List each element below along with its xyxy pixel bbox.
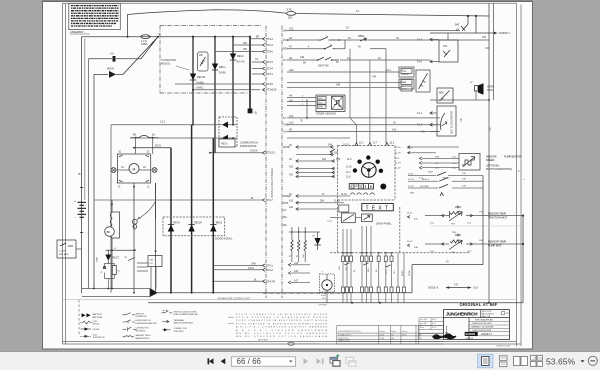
svg-text:583/636: 583/636	[466, 338, 474, 340]
svg-text:11-30: 11-30	[408, 186, 414, 188]
svg-text:ST3-2/1: ST3-2/1	[266, 152, 276, 155]
thyristor module boundary	[160, 26, 262, 93]
wire BL row to ST4-7	[94, 198, 273, 202]
svg-text:15A: 15A	[288, 16, 293, 20]
svg-text:DIODE: DIODE	[93, 329, 100, 331]
svg-text:gepr. EM: gepr. EM	[420, 323, 427, 325]
connector arrows ST column	[175, 36, 277, 92]
svg-text:11-15: 11-15	[334, 201, 340, 203]
wire MDIN column	[93, 74, 95, 288]
commutation diode module	[111, 117, 276, 155]
DIODE-B free row	[428, 285, 478, 290]
capacitor C3	[89, 52, 142, 62]
svg-text:MDIN: MDIN	[107, 66, 114, 70]
svg-text:KURZHUBSCHALTER: KURZHUBSCHALTER	[136, 322, 157, 325]
svg-text:SY: SY	[283, 117, 287, 120]
svg-text:RECT: RECT	[113, 257, 120, 260]
svg-text:ST4-7: ST4-7	[266, 199, 273, 202]
temp sensor traction row	[407, 206, 524, 226]
legend text block right	[228, 314, 328, 342]
svg-text:MELD. NR: MELD. NR	[482, 316, 491, 318]
sheet border frame	[63, 3, 522, 346]
signature scribble	[433, 334, 456, 338]
bottom-left oval	[288, 342, 320, 345]
svg-text:RD/BK: RD/BK	[409, 269, 411, 276]
svg-text:22-5: 22-5	[386, 270, 388, 274]
svg-text:A20: A20	[289, 69, 294, 72]
svg-text:REC8: REC8	[221, 143, 228, 146]
icon window disabled	[346, 357, 356, 366]
svg-text:3 FU: 3 FU	[287, 7, 293, 11]
svg-text:F1-2: F1-2	[417, 124, 423, 127]
svg-text:OR: OR	[243, 48, 247, 51]
svg-text:ST4-3: ST4-3	[266, 38, 273, 41]
toolbar	[0, 351, 600, 370]
diode REC4	[168, 222, 181, 232]
svg-text:14-2: 14-2	[467, 251, 472, 253]
wire row 138	[287, 137, 350, 139]
svg-text:05.93: 05.93	[402, 334, 407, 336]
wire gate row ON/BL	[192, 87, 260, 91]
wire return L	[412, 262, 483, 293]
wire row A8 seat switch	[287, 56, 430, 68]
svg-text:29A: 29A	[320, 200, 325, 203]
control unit mid rows	[283, 144, 352, 227]
svg-text:471: 471	[506, 313, 509, 315]
svg-text:DIODE -B: DIODE -B	[428, 288, 439, 290]
wire SCR branch 3	[232, 36, 234, 125]
diode module dashed box	[163, 217, 233, 241]
svg-text:11-18: 11-18	[395, 153, 401, 155]
aux contactor box	[57, 240, 82, 258]
svg-text:A,B,C,F,S,L CONNECTOR CONTRO: A,B,C,F,S,L CONNECTOR CONTROL HARNESS	[236, 326, 328, 329]
svg-text:462: 462	[443, 45, 448, 48]
svg-text:53.65%: 53.65%	[546, 356, 576, 366]
svg-text:A20: A20	[289, 206, 294, 209]
svg-text:BATTERIE: BATTERIE	[93, 316, 104, 319]
svg-text:ST3-6: ST3-6	[266, 51, 273, 54]
rows A19 A16 A17	[288, 262, 310, 284]
svg-text:BT: BT	[256, 36, 260, 39]
svg-text:OV: OV	[283, 210, 287, 212]
svg-text:05.93: 05.93	[380, 338, 385, 340]
pcb boundary dash-dot column 1	[265, 26, 267, 298]
diode MDIN	[94, 66, 123, 78]
svg-text:STEER-SENSOR: STEER-SENSOR	[316, 113, 336, 116]
black code cell	[465, 332, 478, 336]
svg-text:SCHUETZ: SCHUETZ	[136, 330, 147, 332]
temp sensor pump row	[407, 232, 524, 254]
legend connector symbol	[162, 328, 187, 333]
bus negative return	[82, 282, 412, 297]
svg-text:ASSEMBLY...: ASSEMBLY...	[70, 30, 86, 34]
svg-text:Norm: Norm	[420, 327, 425, 329]
wire motor down risers	[133, 183, 155, 293]
motor M traction	[111, 152, 157, 189]
connector boxes F2	[287, 69, 412, 92]
RFI filter box R6	[198, 52, 209, 71]
svg-text:STROM.AUFPLAN: STROM.AUFPLAN	[475, 319, 493, 322]
svg-text:POWER FOR CONTROL UNIT: POWER FOR CONTROL UNIT	[218, 298, 251, 300]
svg-text:BAT: BAT	[455, 24, 460, 27]
TEXT display box	[362, 204, 394, 212]
accelerator unit	[417, 106, 463, 136]
svg-text:A16: A16	[294, 270, 299, 273]
svg-text:Datum: Datum	[380, 330, 386, 333]
svg-text:TMO: TMO	[283, 124, 289, 127]
svg-text:14-8: 14-8	[394, 270, 396, 274]
svg-text:A21: A21	[289, 100, 294, 103]
svg-text:Bl 1/1: Bl 1/1	[432, 319, 436, 321]
svg-text:ST3-3: ST3-3	[266, 44, 273, 47]
svg-text:OV: OV	[283, 131, 287, 134]
svg-text:MB,ML COLLECTOR OPTION-HARNE: MB,ML COLLECTOR OPTION-HARNESS	[236, 332, 328, 335]
wire row A5	[287, 129, 440, 132]
svg-text:ST4-7/8: ST4-7/8	[266, 280, 276, 283]
wire row A7 REV with switch	[287, 40, 386, 143]
svg-text:MB,ML STECKER OPTION-KABELBA: MB,ML STECKER OPTION-KABELBAUM	[236, 335, 327, 338]
svg-text:THYRISTOR: THYRISTOR	[93, 337, 105, 339]
svg-text:4852: 4852	[428, 172, 434, 174]
svg-text:11-16: 11-16	[395, 147, 401, 149]
option boundary left dashes	[78, 300, 80, 336]
svg-text:MODUL: MODUL	[161, 61, 171, 65]
svg-text:UNIT ACCELERATOR: UNIT ACCELERATOR	[451, 111, 454, 134]
left small cells	[419, 310, 444, 340]
svg-text:Name: Name	[391, 331, 396, 333]
svg-text:11-19: 11-19	[395, 163, 401, 165]
wire right riser	[488, 3, 490, 303]
bus bottom long	[63, 299, 524, 304]
control unit left labels	[283, 28, 294, 134]
svg-text:GM3036-1: GM3036-1	[499, 32, 511, 35]
horn circuit boxes	[399, 67, 430, 92]
svg-text:F1-1: F1-1	[417, 112, 423, 115]
svg-text:F1/F2 STECKER IN ELEKTRONIK: F1/F2 STECKER IN ELEKTRONIK-EINHEIT BOSC…	[236, 323, 327, 325]
svg-text:11-22: 11-22	[341, 194, 347, 196]
svg-text:4V: 4V	[441, 98, 444, 100]
svg-text:PUMP MOT.: PUMP MOT.	[488, 244, 502, 247]
svg-text:DIODE MODUL: DIODE MODUL	[240, 145, 258, 148]
svg-text:43E: 43E	[414, 247, 418, 249]
svg-text:A12: A12	[289, 28, 294, 31]
wire main positive bus	[82, 36, 251, 38]
svg-text:TRACTION MOT.: TRACTION MOT.	[488, 216, 508, 219]
svg-text:11-3: 11-3	[346, 172, 351, 174]
svg-text:11-7: 11-7	[373, 143, 378, 145]
svg-text:SCHALTER: SCHALTER	[136, 315, 147, 318]
svg-text:43C: 43C	[414, 219, 418, 221]
svg-text:HRT AUX: HRT AUX	[59, 253, 69, 256]
svg-text:SENSOR TEMP.: SENSOR TEMP.	[488, 241, 507, 244]
svg-text:COIL: COIL	[93, 321, 99, 323]
svg-text:TEXT: TEXT	[366, 206, 392, 212]
svg-text:ANSCHLUSSPUNKT: ANSCHLUSSPUNKT	[174, 322, 194, 325]
svg-text:13-2: 13-2	[390, 143, 395, 145]
revision pointer	[445, 326, 447, 334]
svg-text:MODE: MODE	[283, 147, 290, 149]
legend liquid switch symbol	[162, 310, 199, 316]
svg-text:OR8: OR8	[251, 263, 256, 265]
small box left of panel	[327, 205, 349, 223]
svg-text:55/21: 55/21	[155, 145, 162, 148]
svg-text:MAGNET FIELD: MAGNET FIELD	[136, 334, 152, 337]
svg-text:FU: FU	[150, 263, 153, 265]
wire row A13	[287, 122, 440, 125]
svg-text:4 MODIFICATION KD 10.94: 4 MODIFICATION KD 10.94	[338, 330, 360, 333]
svg-text:3B+: 3B+	[283, 225, 288, 227]
TB switch cluster	[124, 256, 162, 289]
svg-text:108: 108	[482, 36, 487, 39]
svg-text:KS: KS	[456, 28, 460, 31]
svg-text:42BR: 42BR	[97, 256, 99, 262]
battery GB1	[74, 172, 86, 233]
svg-text:REC5P: REC5P	[194, 222, 202, 225]
svg-text:PRINTED CIRCUIT BOARD: PRINTED CIRCUIT BOARD	[271, 168, 274, 198]
svg-text:F1-6: F1-6	[417, 61, 423, 64]
svg-text:MAGNETFELD: MAGNETFELD	[136, 337, 151, 340]
wire row A11	[287, 99, 440, 123]
diode REC2	[230, 54, 245, 64]
zoom out button	[588, 356, 597, 365]
svg-text:ORANGE: ORANGE	[401, 73, 410, 76]
svg-text:RFI: RFI	[199, 54, 203, 57]
hour meter box	[330, 213, 355, 223]
svg-text:43A: 43A	[322, 158, 327, 161]
svg-text:CGM1/91 06.94: CGM1/91 06.94	[496, 346, 511, 348]
svg-text:ST3-1: ST3-1	[266, 73, 273, 76]
icon two page scroll	[531, 355, 544, 366]
svg-text:11-21: 11-21	[407, 213, 413, 215]
svg-text:BK/4: BK/4	[319, 98, 323, 100]
bottom connector columns	[339, 226, 411, 303]
svg-text:ON/GN: ON/GN	[250, 151, 258, 153]
svg-text:MB01: MB01	[358, 35, 365, 38]
svg-text:CARRELLI 20-25/20RM: CARRELLI 20-25/20RM	[471, 325, 493, 328]
svg-text:11-20: 11-20	[407, 148, 413, 150]
svg-text:SPULE: SPULE	[93, 324, 100, 326]
key switch KS	[455, 15, 477, 33]
steering wheel indicator cluster	[353, 155, 383, 177]
svg-text:1 AEND. 02.92: 1 AEND. 02.92	[338, 339, 350, 342]
svg-text:14-1: 14-1	[430, 251, 435, 253]
svg-text:A15: A15	[289, 200, 294, 203]
wire row A6 FWD with switch	[287, 35, 489, 41]
horn speaker HN01	[430, 82, 494, 101]
svg-text:3 STAND 05.93: 3 STAND 05.93	[338, 333, 350, 336]
svg-text:A19: A19	[294, 262, 299, 265]
horn option circle	[319, 272, 335, 307]
legend coil symbol	[81, 321, 100, 326]
legend horn switch symbol	[123, 320, 157, 325]
icon prev page	[221, 358, 226, 364]
svg-text:GY: GY	[283, 59, 287, 62]
svg-text:ST3/4 STECKER IN ELEKTRONIK: ST3/4 STECKER IN ELEKTRONIK BOSCH	[236, 317, 327, 319]
svg-text:BL: BL	[354, 270, 356, 272]
connector pins on dash top	[350, 49, 395, 146]
svg-text:TERMINAL: TERMINAL	[174, 319, 185, 322]
svg-text:A23/49-T1: A23/49-T1	[481, 333, 492, 336]
svg-text:ST3-5: ST3-5	[266, 83, 273, 86]
svg-text:DASH PANEL: DASH PANEL	[376, 223, 392, 226]
fuse 3FU	[286, 7, 359, 19]
svg-text:REC3P: REC3P	[197, 76, 206, 79]
diode REC1	[212, 64, 227, 75]
svg-text:STECKER: STECKER	[174, 331, 184, 333]
svg-text:HORN SWITCH: HORN SWITCH	[136, 320, 151, 322]
svg-text:TM: TM	[150, 260, 153, 262]
svg-text:M: M	[370, 185, 373, 189]
option dashdot boundary	[263, 292, 345, 294]
wire SCR branch 1	[192, 36, 194, 126]
connector stub rows right of panel	[408, 127, 526, 226]
svg-text:EUR0PE: EUR0PE	[466, 333, 476, 336]
svg-text:SCR: SCR	[93, 334, 98, 336]
steer sensor unit	[287, 95, 345, 116]
svg-text:REC2: REC2	[237, 55, 244, 58]
brake unit box	[437, 88, 453, 103]
svg-text:PUMP/MOTOR-: PUMP/MOTOR-	[504, 156, 522, 159]
svg-text:43GN: 43GN	[248, 268, 254, 270]
svg-text:CGM 20-20 /20-7025: CGM 20-20 /20-7025	[472, 323, 492, 325]
svg-text:11-20: 11-20	[343, 145, 349, 147]
svg-text:P38: P38	[336, 159, 341, 161]
switch rows right	[408, 172, 483, 265]
wire branch 4 to X1	[248, 36, 259, 115]
svg-text:F1/F2 CONNECTOR IN ELECTRON: F1/F2 CONNECTOR IN ELECTRONIC UNIT BOSCH	[236, 320, 327, 322]
icon new window	[330, 354, 340, 366]
svg-text:11-6: 11-6	[347, 159, 352, 161]
svg-text:SENSOR TEMP.: SENSOR TEMP.	[488, 213, 507, 216]
wire row A20	[287, 69, 400, 87]
svg-text:66 / 66: 66 / 66	[237, 357, 262, 366]
speed sensor box	[459, 154, 522, 172]
icon first page	[208, 358, 214, 364]
svg-text:BK/BU: BK/BU	[402, 270, 404, 276]
diode REC3	[190, 74, 206, 85]
pump contact and cable	[132, 183, 156, 293]
svg-text:Ers. d.: Ers. d.	[432, 327, 437, 329]
diode REC6	[210, 222, 223, 232]
label C1 rows	[133, 121, 166, 137]
relay box contact	[417, 33, 458, 64]
diode RECT bottom left	[97, 250, 120, 263]
svg-text:HN01: HN01	[487, 89, 494, 92]
svg-text:GN8: GN8	[339, 266, 341, 270]
svg-text:12V: 12V	[322, 298, 326, 300]
svg-text:DIODE MODUL: DIODE MODUL	[215, 238, 233, 241]
thick verticals to diode module	[134, 125, 213, 293]
wire SCR branch 2	[214, 36, 216, 153]
diode REC5P	[188, 222, 202, 232]
wire top bus	[128, 10, 490, 37]
legend terminal symbol	[162, 319, 194, 325]
svg-text:OPTION: OPTION	[319, 305, 327, 307]
svg-text:BRK: BRK	[439, 92, 444, 94]
svg-text:ON: ON	[421, 131, 425, 134]
svg-text:11-8: 11-8	[346, 176, 351, 178]
label thyristor module	[161, 58, 189, 70]
svg-text:WH/3: WH/3	[319, 107, 324, 109]
svg-text:WTB: WTB	[283, 203, 289, 205]
svg-text:THYRISTOR: THYRISTOR	[161, 58, 176, 62]
svg-text:CONNECTOR: CONNECTOR	[174, 328, 188, 330]
svg-text:ST3-6/10: ST3-6/10	[266, 89, 277, 92]
legend battery symbol	[82, 313, 104, 319]
svg-text:(2): (2)	[254, 112, 257, 115]
svg-text:A17: A17	[294, 280, 299, 283]
svg-text:UPTOWN: UPTOWN	[258, 339, 268, 341]
svg-text:C-STR: C-STR	[59, 251, 66, 253]
svg-text:14E: 14E	[300, 56, 305, 59]
svg-text:ST4-2: ST4-2	[266, 269, 273, 272]
title block	[419, 310, 509, 340]
svg-text:11-29: 11-29	[408, 179, 414, 181]
svg-text:11-32: 11-32	[407, 241, 413, 243]
svg-text:WH: WH	[283, 30, 287, 33]
svg-text:11-2: 11-2	[359, 143, 364, 145]
svg-text:348: 348	[336, 84, 341, 87]
legend diode symbol	[81, 327, 100, 330]
svg-text:+: +	[74, 200, 76, 204]
wire row A12	[287, 30, 460, 32]
legend switch symbol	[123, 313, 147, 319]
svg-text:2B+: 2B+	[283, 217, 288, 219]
svg-text:A24: A24	[289, 174, 294, 177]
zoom dropdown arrow	[581, 360, 585, 362]
svg-text:SEAT-SW: SEAT-SW	[318, 65, 329, 68]
diode D at B+	[312, 232, 321, 250]
wire right column vertical	[522, 216, 524, 303]
svg-text:ST3-4: ST3-4	[266, 68, 273, 71]
svg-text:JUNGHEINRICH: JUNGHEINRICH	[446, 312, 477, 317]
wire riser 2	[493, 3, 495, 100]
svg-text:X1: X1	[255, 57, 259, 61]
legend contactor symbol	[123, 327, 149, 333]
svg-text:A23: A23	[289, 166, 294, 169]
svg-text:13-1: 13-1	[430, 223, 435, 225]
svg-text:43H: 43H	[410, 193, 414, 195]
svg-text:gez. 04.91: gez. 04.91	[420, 319, 428, 321]
svg-text:Datum: Datum	[402, 330, 408, 333]
resistor cluster B+	[289, 227, 320, 262]
svg-text:F2-1: F2-1	[386, 69, 392, 72]
svg-text:REC1: REC1	[219, 66, 226, 69]
svg-text:PLATTFORM/MOTOR): PLATTFORM/MOTOR)	[486, 168, 512, 171]
svg-text:REV: REV	[283, 48, 288, 51]
svg-text:FWD: FWD	[283, 39, 289, 42]
svg-text:ST4-1: ST4-1	[266, 264, 273, 267]
node fan-out	[123, 32, 161, 74]
svg-text:CONTACTOR: CONTACTOR	[136, 327, 149, 330]
svg-text:REC6: REC6	[216, 222, 223, 225]
wire battery column	[81, 37, 83, 293]
svg-text:16A: 16A	[392, 129, 397, 132]
svg-text:SWITCH+LIQUID LEVEL: SWITCH+LIQUID LEVEL	[174, 311, 198, 313]
legend scr symbol	[81, 334, 105, 339]
svg-text:OR: OR	[243, 42, 247, 45]
svg-text:12: 12	[356, 9, 359, 13]
svg-text:42BA: 42BA	[141, 42, 148, 46]
svg-text:DLX: DLX	[474, 288, 479, 290]
svg-text:ORIGINAL AT 66F: ORIGINAL AT 66F	[460, 302, 498, 307]
svg-text:BK: BK	[107, 230, 111, 234]
pcb boundary dash-dot column 2	[281, 26, 283, 298]
svg-text:C3: C3	[110, 52, 114, 56]
notes text block N1	[69, 3, 121, 34]
wire column 2	[84, 39, 86, 201]
svg-text:MR04: MR04	[401, 82, 406, 84]
